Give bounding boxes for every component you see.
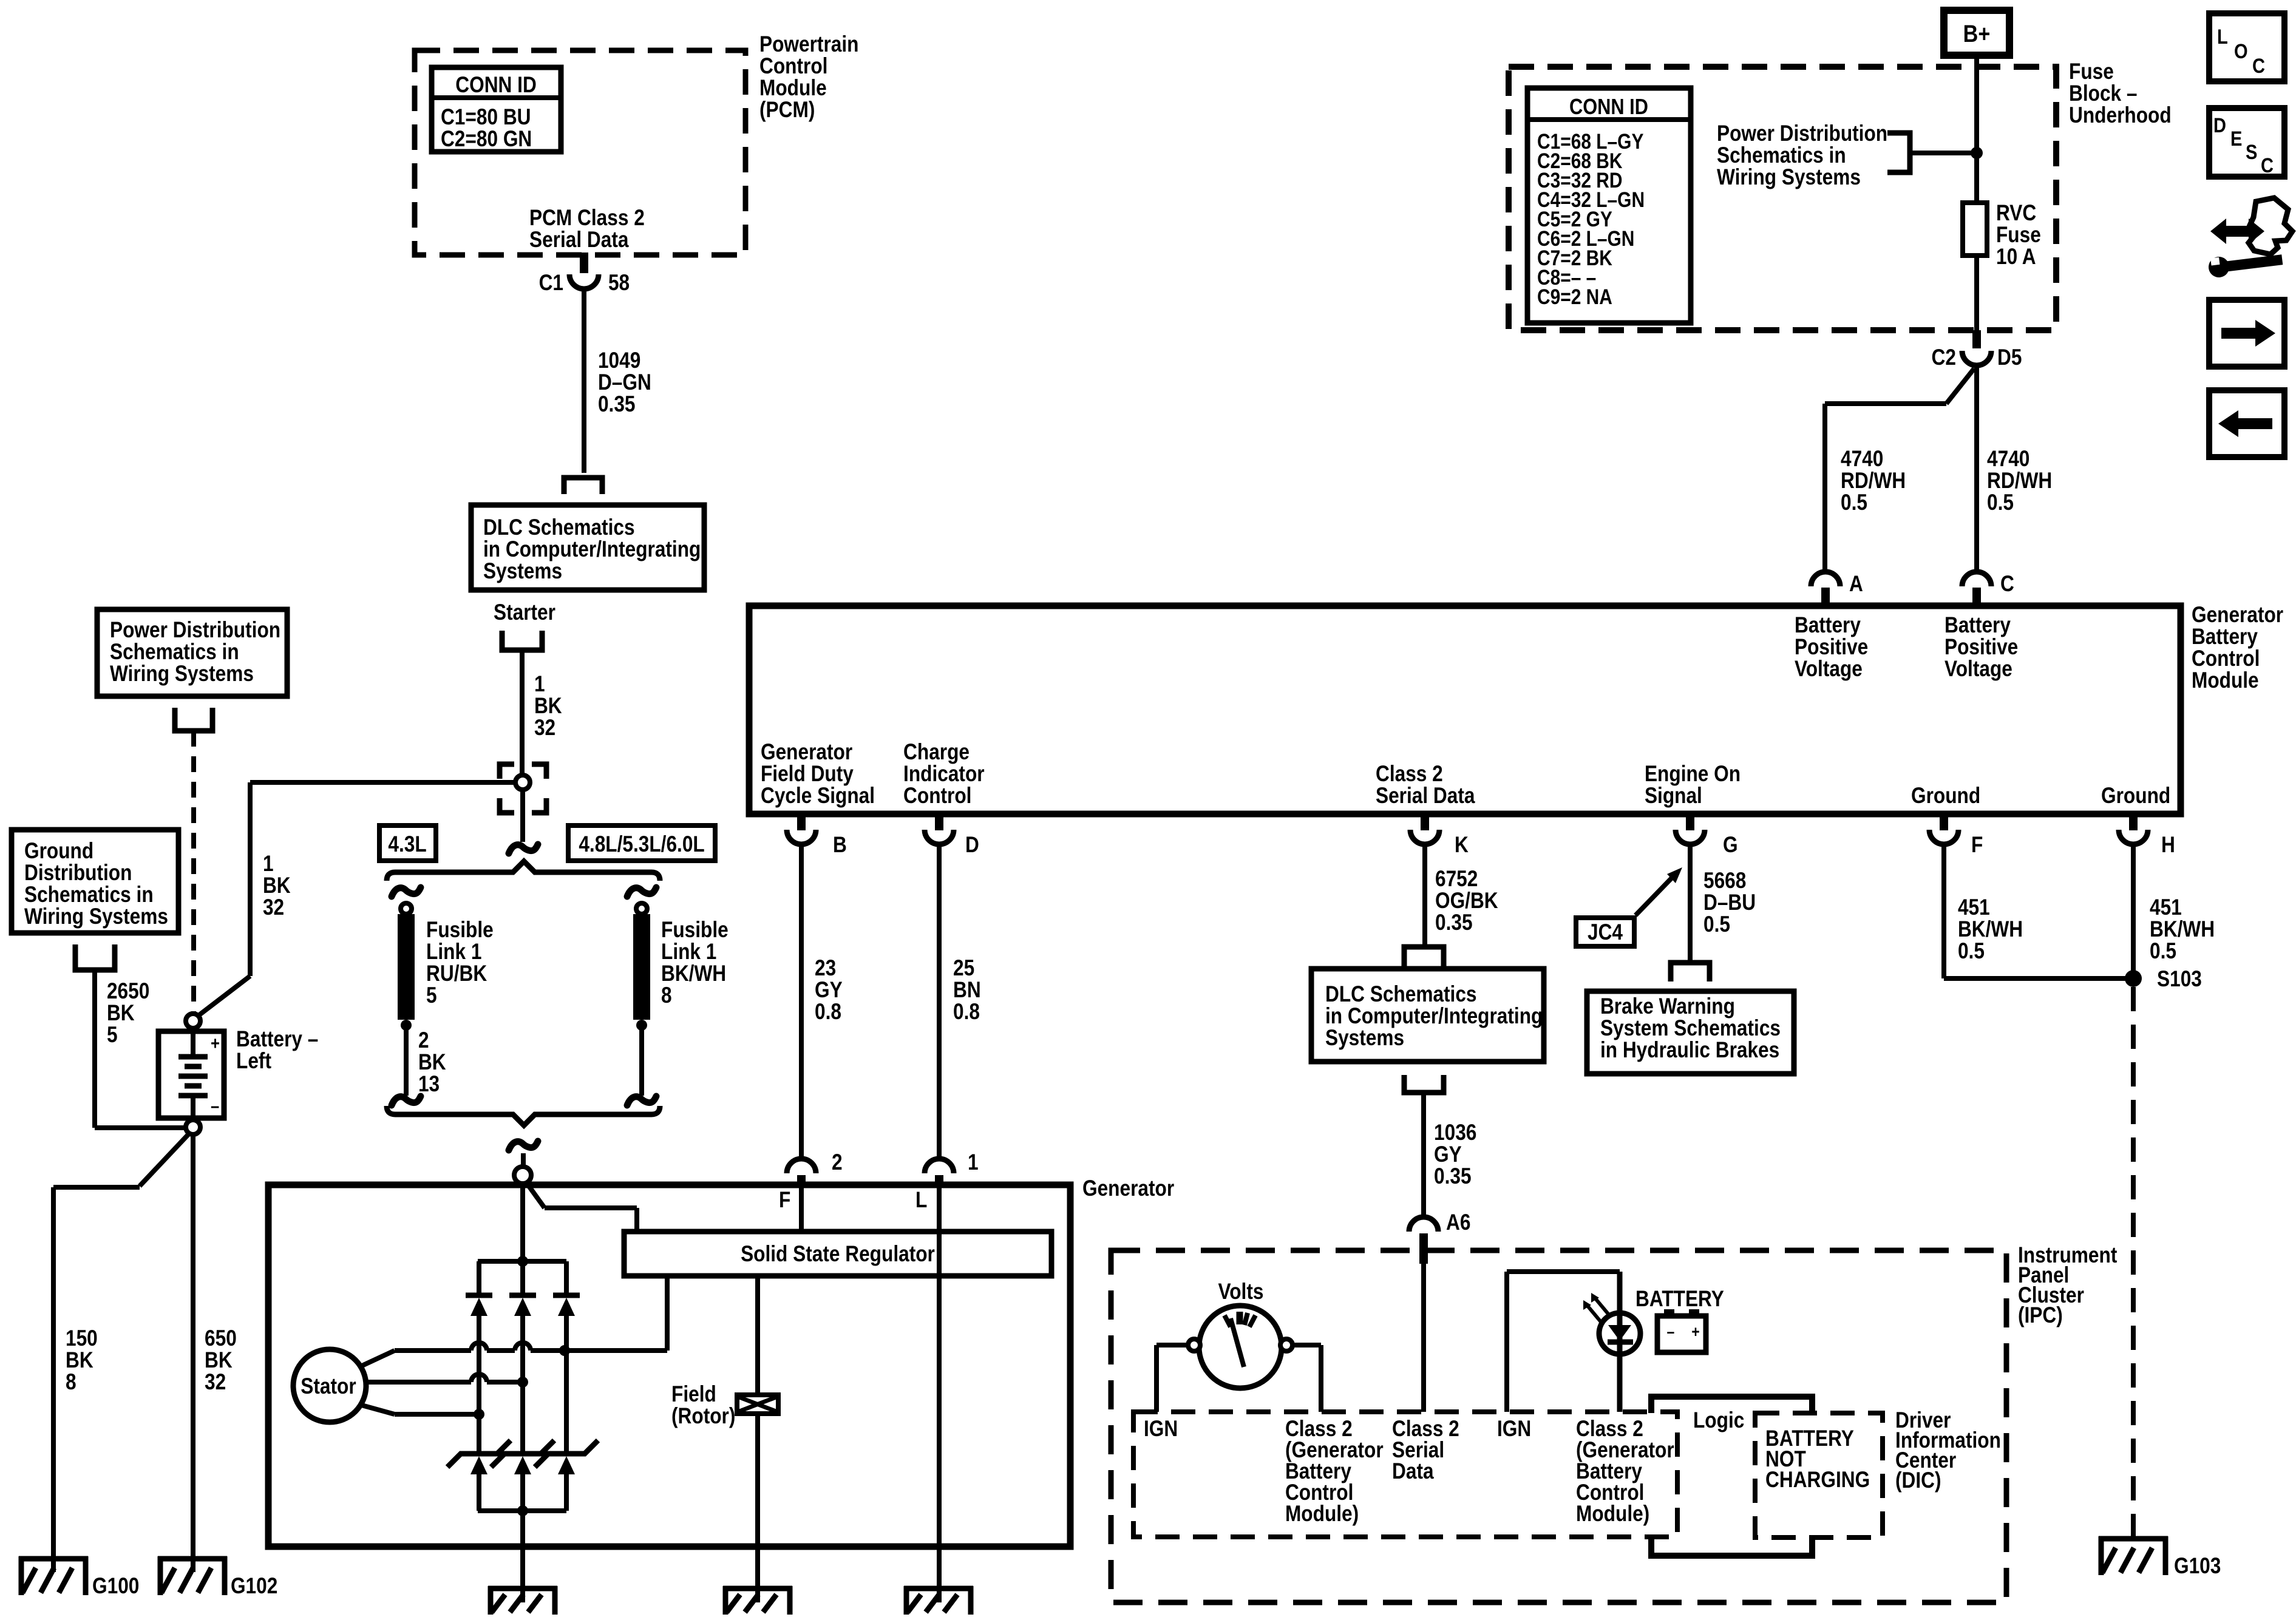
svg-text:RU/BK: RU/BK [426,961,487,986]
svg-text:A6: A6 [1446,1210,1470,1235]
svg-text:Field Duty: Field Duty [761,762,854,787]
svg-text:DLC Schematics: DLC Schematics [483,515,635,540]
svg-text:(Rotor): (Rotor) [671,1404,735,1429]
svg-text:Ground: Ground [24,839,93,864]
svg-text:2650: 2650 [107,979,149,1004]
svg-text:Left: Left [236,1049,271,1074]
svg-text:Signal: Signal [1645,784,1702,808]
svg-text:in Computer/Integrating: in Computer/Integrating [1325,1004,1543,1029]
svg-text:32: 32 [534,716,555,741]
svg-text:(PCM): (PCM) [759,98,815,123]
svg-text:Voltage: Voltage [1944,657,2012,682]
svg-text:Systems: Systems [1325,1026,1404,1051]
svg-text:32: 32 [205,1370,226,1395]
svg-text:GY: GY [1434,1142,1462,1167]
svg-text:Ground: Ground [1911,784,1980,808]
svg-text:IGN: IGN [1497,1417,1531,1442]
svg-text:Fuse: Fuse [1996,223,2041,248]
svg-text:1049: 1049 [598,348,640,373]
svg-text:0.8: 0.8 [815,1000,841,1025]
svg-text:CONN ID: CONN ID [1569,95,1648,120]
svg-text:Link 1: Link 1 [426,940,481,964]
svg-text:Serial Data: Serial Data [1376,784,1475,808]
svg-text:D: D [965,833,979,858]
svg-text:Indicator: Indicator [903,762,985,787]
svg-text:0.5: 0.5 [1841,490,1867,515]
svg-text:L: L [2217,25,2228,49]
svg-text:–: – [1667,1323,1675,1341]
svg-text:JC4: JC4 [1588,920,1623,945]
svg-text:+: + [211,1033,220,1053]
svg-text:0.5: 0.5 [2150,939,2176,964]
svg-text:Module: Module [2192,668,2259,693]
svg-text:BK: BK [66,1348,93,1373]
svg-text:PCM Class 2: PCM Class 2 [529,206,645,231]
svg-text:D: D [2213,114,2226,137]
svg-text:D–GN: D–GN [598,370,651,395]
svg-text:1: 1 [968,1150,979,1175]
svg-text:8: 8 [66,1370,76,1395]
svg-text:0.35: 0.35 [598,392,636,417]
svg-text:BN: BN [953,978,981,1003]
svg-text:Cycle Signal: Cycle Signal [761,784,875,808]
svg-text:RD/WH: RD/WH [1987,469,2052,493]
svg-text:23: 23 [815,956,836,981]
svg-text:RD/WH: RD/WH [1841,469,1906,493]
svg-text:–: – [211,1096,219,1116]
svg-text:BK: BK [107,1001,135,1026]
svg-text:L: L [915,1188,927,1213]
svg-text:CONN ID: CONN ID [455,73,537,98]
svg-text:Block –: Block – [2069,81,2137,106]
svg-text:4740: 4740 [1841,447,1883,472]
svg-text:BK/WH: BK/WH [661,961,726,986]
svg-text:S: S [2246,140,2257,164]
svg-text:G102: G102 [231,1574,277,1599]
svg-text:Ground: Ground [2101,784,2170,808]
svg-text:Serial Data: Serial Data [529,228,629,253]
svg-text:Wiring Systems: Wiring Systems [1717,165,1861,190]
svg-text:DLC Schematics: DLC Schematics [1325,982,1477,1007]
svg-text:B+: B+ [1963,19,1991,47]
svg-text:150: 150 [66,1326,98,1351]
svg-text:Fusible: Fusible [661,918,729,943]
svg-text:2: 2 [832,1150,843,1175]
svg-text:0.35: 0.35 [1435,910,1473,935]
svg-text:Logic: Logic [1693,1408,1744,1433]
svg-text:BK: BK [534,694,562,719]
svg-text:Wiring Systems: Wiring Systems [110,662,254,686]
svg-text:G: G [1723,833,1738,858]
svg-text:BK: BK [205,1348,233,1373]
svg-text:OG/BK: OG/BK [1435,889,1498,914]
svg-text:Systems: Systems [483,559,562,584]
svg-text:Positive: Positive [1944,635,2018,660]
svg-text:C1=80 BU: C1=80 BU [441,105,531,130]
svg-text:Module): Module) [1285,1502,1359,1527]
svg-text:0.8: 0.8 [953,1000,980,1025]
svg-text:Schematics in: Schematics in [110,640,239,665]
svg-text:S103: S103 [2157,967,2202,992]
svg-text:451: 451 [2150,895,2182,920]
svg-text:1: 1 [534,672,545,697]
svg-text:Stator: Stator [301,1374,356,1399]
svg-text:Control: Control [759,54,827,79]
svg-text:BATTERY: BATTERY [1635,1287,1724,1312]
svg-text:650: 650 [205,1326,237,1351]
svg-text:Generator: Generator [2192,603,2283,628]
svg-text:Engine On: Engine On [1645,762,1741,787]
svg-text:0.5: 0.5 [1703,912,1730,937]
svg-text:GY: GY [815,978,843,1003]
svg-text:Generator: Generator [761,740,852,765]
svg-text:5668: 5668 [1703,869,1746,893]
svg-text:O: O [2234,39,2248,63]
svg-text:D5: D5 [1997,345,2022,370]
svg-text:in Hydraulic Brakes: in Hydraulic Brakes [1600,1038,1779,1063]
svg-text:4.3L: 4.3L [388,832,426,857]
svg-text:Battery: Battery [2192,625,2258,649]
svg-text:0.35: 0.35 [1434,1164,1472,1189]
svg-text:G103: G103 [2174,1554,2221,1579]
svg-text:Charge: Charge [903,740,970,765]
svg-text:Solid State Regulator: Solid State Regulator [741,1242,935,1267]
svg-text:D–BU: D–BU [1703,890,1756,915]
svg-text:Distribution: Distribution [24,861,132,886]
svg-text:Fusible: Fusible [426,918,494,943]
svg-text:58: 58 [608,271,630,296]
svg-text:Schematics in: Schematics in [24,883,154,907]
svg-text:C: C [2261,154,2274,177]
svg-text:0.5: 0.5 [1987,490,2014,515]
svg-text:1: 1 [263,852,274,876]
svg-text:CHARGING: CHARGING [1765,1468,1870,1493]
svg-text:13: 13 [418,1072,440,1097]
svg-text:Battery –: Battery – [236,1027,318,1052]
svg-text:1036: 1036 [1434,1120,1476,1145]
svg-text:Battery: Battery [1944,613,2011,638]
svg-text:Fuse: Fuse [2069,59,2114,84]
svg-text:K: K [1455,833,1469,858]
svg-text:32: 32 [263,895,284,920]
svg-text:4740: 4740 [1987,447,2029,472]
svg-text:Module): Module) [1576,1502,1649,1527]
svg-text:(IPC): (IPC) [2018,1303,2063,1328]
svg-text:4.8L/5.3L/6.0L: 4.8L/5.3L/6.0L [579,832,704,857]
svg-text:(DIC): (DIC) [1895,1468,1941,1493]
svg-text:Control: Control [903,784,971,808]
svg-text:B: B [833,833,847,858]
svg-text:G100: G100 [92,1574,139,1599]
svg-text:E: E [2230,127,2242,151]
svg-text:Power Distribution: Power Distribution [1717,121,1887,146]
svg-text:Control: Control [2192,646,2260,671]
svg-text:C1: C1 [539,271,563,296]
svg-text:+: + [1691,1323,1699,1341]
svg-text:C9=2 NA: C9=2 NA [1537,285,1612,309]
svg-text:IGN: IGN [1144,1417,1178,1442]
svg-text:A: A [1849,572,1863,597]
svg-text:BK: BK [418,1050,446,1075]
svg-text:Positive: Positive [1795,635,1868,660]
svg-text:C: C [2000,572,2014,597]
svg-text:Powertrain: Powertrain [759,32,858,57]
svg-text:Link 1: Link 1 [661,940,716,964]
svg-text:0.5: 0.5 [1958,939,1985,964]
svg-text:2: 2 [418,1028,429,1053]
svg-text:System Schematics: System Schematics [1600,1016,1781,1041]
svg-text:10 A: 10 A [1996,245,2036,269]
svg-text:BK: BK [263,873,291,898]
svg-text:Wiring Systems: Wiring Systems [24,904,168,929]
svg-text:BK/WH: BK/WH [1958,917,2023,942]
svg-text:Voltage: Voltage [1795,657,1863,682]
svg-text:Brake Warning: Brake Warning [1600,994,1735,1019]
svg-text:Field: Field [671,1382,716,1407]
svg-text:6752: 6752 [1435,867,1478,892]
svg-text:8: 8 [661,983,672,1008]
svg-text:5: 5 [426,983,437,1008]
svg-text:C: C [2252,54,2265,78]
svg-text:RVC: RVC [1996,201,2036,226]
svg-text:Class 2: Class 2 [1376,762,1443,787]
svg-text:Power Distribution: Power Distribution [110,618,280,643]
svg-text:H: H [2161,833,2175,858]
svg-text:BK/WH: BK/WH [2150,917,2215,942]
svg-text:451: 451 [1958,895,1990,920]
svg-text:Volts: Volts [1218,1280,1263,1304]
svg-text:Schematics in: Schematics in [1717,143,1846,168]
svg-text:C2: C2 [1932,345,1956,370]
svg-text:Data: Data [1392,1459,1434,1484]
svg-text:F: F [779,1188,790,1213]
svg-text:Module: Module [759,76,827,101]
svg-text:Battery: Battery [1795,613,1861,638]
svg-text:Generator: Generator [1082,1176,1174,1201]
svg-text:25: 25 [953,956,974,981]
svg-text:C2=80 GN: C2=80 GN [441,127,532,152]
svg-text:Underhood: Underhood [2069,103,2172,128]
svg-text:Starter: Starter [494,600,555,625]
svg-text:in Computer/Integrating: in Computer/Integrating [483,537,701,562]
svg-text:5: 5 [107,1023,118,1048]
svg-text:F: F [1971,833,1983,858]
